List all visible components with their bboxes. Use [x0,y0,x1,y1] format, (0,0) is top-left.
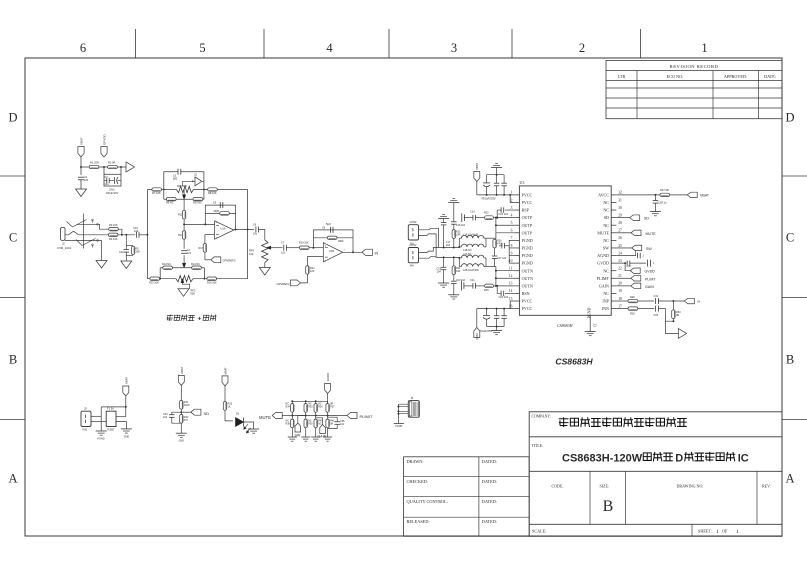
connector VBAT P5 [123,386,129,396]
svg-text:VBAT: VBAT [475,333,479,340]
svg-text:R29: R29 [630,313,635,316]
svg-text:R28: R28 [630,296,635,299]
svg-text:1: 1 [716,529,719,535]
wire to GVDD flag [625,263,630,271]
agnd arrow [678,329,686,339]
svg-text:C8: C8 [322,227,326,230]
svg-text:FUSE: FUSE [107,428,114,432]
svg-text:SHEET:: SHEET: [698,529,712,534]
svg-text:IC: IC [738,452,749,464]
svg-text:TITLE:: TITLE: [532,444,544,448]
svg-text:10K: 10K [310,270,315,273]
svg-text:R13 NC: R13 NC [162,263,171,266]
svg-text:5pF: 5pF [326,222,331,226]
svg-text:10R: 10R [456,234,461,237]
svg-text:U1B: U1B [329,249,334,253]
svg-text:D: D [8,111,17,125]
capacitor C29 [636,253,638,259]
flag SW [632,245,642,250]
resistor R22 [485,216,494,220]
svg-text:C7: C7 [281,242,285,245]
wire pins [398,403,408,405]
resistor R32 [180,415,183,424]
ground [311,436,320,438]
revision record table [606,61,782,119]
audio jack J2 3.5mm [61,227,65,240]
svg-text:RP1 50K: RP1 50K [177,185,187,188]
svg-text:GVDD: GVDD [326,373,330,381]
feedback network U1A [205,205,235,229]
snubber RC column top [448,202,459,204]
wire output [234,229,254,231]
capacitor C10 [135,232,137,238]
flag SD out [191,409,201,415]
wire RC to ground [125,235,127,246]
svg-text:C21: C21 [470,279,475,282]
svg-text:NC: NC [603,268,609,273]
svg-text:2: 2 [579,41,585,55]
feedback network U1B [313,230,353,252]
caption tone circuit + amplify [166,315,195,321]
wire to tone input bus [139,234,147,236]
ground [650,211,661,213]
capacitor CNC polarized [109,180,114,182]
speaker connector J3 [408,225,418,240]
capacitor C20 [453,275,455,281]
wire OUTN tie pins 11-13 [496,270,514,272]
signature table (drawn/checked) [404,457,530,537]
svg-text:PLIMT: PLIMT [597,276,610,281]
wire [80,157,82,175]
svg-text:1: 1 [653,262,655,265]
svg-text:104: 104 [84,178,89,182]
svg-text:R14 NC: R14 NC [191,263,200,266]
svg-text:R36: R36 [318,406,323,409]
svg-text:VBAT: VBAT [80,137,84,145]
capacitor C25 [501,315,507,317]
svg-text:SW: SW [646,247,652,251]
svg-text:C2: C2 [105,176,109,179]
svg-text:J4A: J4A [410,265,415,268]
svg-text:B: B [9,353,17,367]
svg-text:C20 104: C20 104 [456,279,466,282]
resistor R19 [300,246,310,249]
ground [178,289,189,297]
svg-text:R8 10K: R8 10K [208,191,217,195]
capacitor C6 [255,227,257,233]
svg-text:PGND: PGND [522,246,533,251]
speaker connector J4 [408,248,418,263]
svg-text:18: 18 [618,297,622,301]
flag IN [362,249,373,255]
svg-text:REVISION RECORD: REVISION RECORD [670,64,719,69]
svg-text:7: 7 [511,236,513,240]
svg-text:R7 10K: R7 10K [152,191,161,195]
connector VBAT P3 [474,172,480,182]
U3 left pins 1-16 [514,194,519,196]
wire speaker rail P [438,247,459,249]
svg-text:NC: NC [318,423,322,426]
svg-text:7: 7 [344,250,346,252]
wire top cap bank rails [487,174,505,176]
resistor R18 [220,212,230,215]
ground [76,189,87,197]
ground [323,436,332,438]
capacitor C16 [472,215,474,221]
svg-text:GPVDD: GPVDD [103,133,107,145]
svg-text:R27 0R: R27 0R [660,188,669,192]
resistor R10 (treble lower right) [193,198,203,201]
potentiometer RP2 bass [176,276,193,282]
capacitor C1 [78,176,84,178]
resistor R35 [305,401,307,403]
capacitor C21 [472,283,474,289]
svg-text:13: 13 [509,282,513,286]
potentiometer RP1 treble [176,186,193,192]
wire PLIMT pin 21 [616,277,630,279]
svg-text:VBAT: VBAT [700,194,710,198]
wire [282,415,292,417]
svg-text:PGND: PGND [522,238,533,243]
svg-text:IN: IN [375,251,379,255]
svg-text:21: 21 [618,274,622,278]
inductor L1 pair [461,235,484,238]
svg-text:23: 23 [618,259,622,263]
capacitor C35 [328,417,338,421]
svg-text:INP: INP [602,299,609,304]
connector GVDD P8 [325,384,331,394]
svg-text:DATED:: DATED: [482,519,497,524]
capacitor C13 [494,182,500,184]
svg-text:NC: NC [603,291,609,296]
svg-text:U3: U3 [520,180,525,185]
svg-text:28: 28 [618,221,622,225]
resistor R27 [660,193,670,196]
wire mid column [183,199,185,210]
svg-text:16: 16 [509,304,513,308]
wire PVCC pins 1-2 bracket [510,195,514,203]
ground [259,268,270,276]
svg-text:R39: R39 [308,423,313,426]
resistor R25 [485,284,494,288]
treble wiper wires [182,180,195,182]
svg-text:DRAWN:: DRAWN: [407,459,424,464]
wire jack sleeve ground [101,240,103,260]
svg-text:CODE:: CODE: [552,483,564,488]
treble network box [164,172,178,200]
svg-text:DATED:: DATED: [482,459,497,464]
svg-text:GVDD: GVDD [597,261,609,266]
svg-text:17: 17 [618,304,622,308]
wire inverting input [184,223,214,225]
svg-text:DATED:: DATED: [482,499,497,504]
wire bass row [147,278,176,280]
resistor R31 [180,401,183,410]
wire [287,247,300,249]
svg-text:104: 104 [446,244,451,247]
flag GPVREF [211,257,221,263]
wire noninverting input [205,234,215,236]
capacitor C27 [494,248,496,256]
resistor R20 [327,236,337,239]
wire PVCC pins 15-16 bracket [510,301,514,309]
snubber RC column bottom [453,257,455,265]
resistor R11 [182,210,185,219]
resistor R38 [291,419,294,428]
wire to agnd arrow [665,321,678,333]
svg-text:R35: R35 [308,406,313,409]
svg-text:J6: J6 [411,396,414,400]
flag SD [630,215,640,220]
wire to volume pot [259,230,265,240]
wire [204,252,206,260]
connector VBAT P1 [78,147,84,158]
svg-text:D: D [785,111,794,125]
capacitor C12 bulk [483,182,490,184]
svg-text:GVDD: GVDD [645,270,656,274]
svg-text:ECO NO:: ECO NO: [667,74,684,79]
svg-text:REV:: REV: [762,483,771,488]
resistor R7 [152,188,162,191]
svg-text:MUTE: MUTE [646,232,657,236]
wire [180,385,182,400]
svg-text:CHECKED:: CHECKED: [407,479,429,484]
svg-text:SD: SD [604,215,609,220]
svg-text:QUALITY CONTROL:: QUALITY CONTROL: [407,499,449,504]
resistor R24 [452,266,455,275]
capacitor C5 [219,202,221,208]
svg-text:4: 4 [511,213,513,217]
svg-text:R3 10K: R3 10K [109,223,118,227]
svg-text:1: 1 [701,41,707,55]
svg-text:B: B [786,353,794,367]
svg-text:50K: 50K [191,293,196,296]
svg-text:GPVREF2: GPVREF2 [223,259,237,263]
wire AGND pin 24 [616,255,636,257]
svg-text:9: 9 [511,251,513,255]
capacitor C8 [329,227,331,233]
svg-text:SW: SW [603,246,609,251]
resistor R3 [109,228,119,231]
capacitor C31 [647,260,649,267]
svg-text:R17: R17 [199,247,204,250]
connector VBAT P6 [178,375,184,385]
svg-text:PVCC: PVCC [522,200,533,205]
svg-text:100uF/10V: 100uF/10V [106,191,119,195]
op-amp IC U3 CS8683H body [519,186,611,315]
flag GPVREF right [291,280,301,286]
svg-text:GPVREF2: GPVREF2 [277,282,291,286]
svg-text:8: 8 [511,244,513,248]
wire [225,410,233,421]
svg-text:LTR: LTR [618,74,626,79]
svg-text:DATED:: DATED: [482,479,497,484]
svg-text:15: 15 [509,297,513,301]
svg-text:AVCC: AVCC [598,193,609,198]
wire [91,421,106,423]
wire [301,274,308,283]
wire loop caps [104,167,121,186]
svg-text:CS8683H: CS8683H [557,323,574,328]
svg-text:PGND: PGND [522,261,533,266]
connector J5 VIN [81,411,91,426]
svg-text:OUTP: OUTP [522,215,533,220]
svg-text:GAIN: GAIN [599,283,609,288]
svg-text:BSN: BSN [522,291,530,296]
svg-text:10K: 10K [135,249,140,253]
svg-text:2: 2 [511,198,513,202]
svg-text:MUTE: MUTE [259,415,271,420]
resistor R15 [150,277,160,280]
svg-text:MUTE: MUTE [597,230,609,235]
svg-text:10u: 10u [281,252,286,255]
svg-text:C11: C11 [119,250,124,254]
svg-text:B: B [603,498,614,515]
svg-text:27: 27 [618,229,622,233]
capacitor C2 [104,180,107,182]
svg-text:1K: 1K [228,406,231,409]
svg-text:3: 3 [511,206,513,210]
svg-text:C28 1u: C28 1u [658,201,667,205]
svg-text:A: A [785,472,794,486]
ground [248,428,259,430]
svg-text:300K: 300K [214,210,220,213]
wire [118,229,122,235]
wire speaker rail N [436,256,459,258]
treble mini opamp [195,177,202,186]
svg-text:SD: SD [204,411,210,416]
wire OUTP tie pins 4-6 [496,217,514,219]
capacitor C34 [172,412,182,414]
sheet border frame [25,58,782,536]
svg-text:NC: NC [603,200,609,205]
wire BSN RC row [465,285,473,287]
wire [117,166,126,168]
svg-text:47K: 47K [184,419,189,422]
svg-text:GND: GND [179,440,185,443]
ground [121,428,132,430]
svg-text:OUTN: OUTN [522,283,533,288]
ground bottom bank [496,327,498,331]
svg-text:COMPANY:: COMPANY: [532,415,551,419]
LED D1 [236,418,244,427]
capacitor C7 [283,245,285,251]
wire [99,166,108,168]
capacitor C3 treble [177,169,179,175]
svg-text:1: 1 [511,191,513,195]
svg-text:0R: 0R [676,314,679,317]
svg-text:SCALE:: SCALE: [532,529,546,534]
svg-text:R34: R34 [286,406,291,409]
svg-text:L1A 10uH/MS: L1A 10uH/MS [463,234,479,237]
title block [529,412,782,537]
flag VBAT right [687,192,697,197]
svg-text:360K: 360K [338,240,344,243]
svg-text:R15 10K: R15 10K [149,281,159,284]
svg-text:473: 473 [187,252,192,255]
svg-text:J5: J5 [84,407,87,411]
svg-text:104: 104 [437,271,442,274]
flag SW up [295,423,301,432]
svg-text:VBAT: VBAT [224,367,228,374]
svg-text:DRAWING NO:: DRAWING NO: [677,483,704,488]
svg-text:R2 0R: R2 0R [108,161,115,165]
svg-text:10u: 10u [253,233,258,236]
svg-text:CS8683H: CS8683H [555,357,593,367]
U3 right pins 17-32 [611,308,616,310]
wire speaker J3 to rails [419,228,439,247]
svg-text:U2: U2 [194,175,198,177]
svg-text:PGND: PGND [98,438,105,441]
svg-text:NC: NC [603,208,609,213]
svg-text:20: 20 [618,282,622,286]
ground [288,436,297,438]
resistor R16 [207,277,217,280]
svg-text:104: 104 [163,416,168,419]
svg-text:VBAT: VBAT [124,377,128,384]
zone ticks left [0,175,25,177]
svg-text:D1: D1 [236,412,240,416]
svg-text:OUTP: OUTP [522,223,533,228]
resistor R13 [163,266,173,269]
svg-text:26: 26 [618,236,622,240]
svg-text:6: 6 [80,41,86,55]
svg-text:D: D [675,452,683,464]
wire INP pin 18 [616,300,628,302]
snubber cap column C19 [441,266,447,268]
svg-text:OF: OF [722,529,728,534]
zone ticks top [135,29,137,58]
fuse F1 module [106,411,116,426]
svg-text:14: 14 [509,289,513,293]
svg-text:6: 6 [511,229,513,233]
resistor R5 [131,246,134,254]
flag PLIMT [631,276,641,281]
svg-text:R16 10K: R16 10K [207,281,217,284]
svg-text:GAIN: GAIN [645,285,654,289]
resistor R33 [223,402,226,411]
capacitor C24 [494,315,500,317]
capacitor C18 [451,221,457,223]
svg-text:C22 104: C22 104 [499,296,509,299]
svg-text:10R: 10R [456,270,461,273]
svg-text:1: 1 [736,529,739,535]
wire bottoms to ground [291,428,293,437]
wire top rail [327,394,329,404]
capacitor C26 across PGND [501,243,503,249]
capacitor C22 bootstrap BSN [505,292,514,294]
svg-text:VBAT: VBAT [180,367,184,374]
wire bottom cap bank rails [477,308,510,310]
wire output [343,251,362,253]
svg-text:C: C [786,231,794,245]
flag MUTE [631,230,641,235]
svg-text:C6: C6 [253,224,257,227]
resistor R1 [89,165,99,168]
svg-text:PVCC: PVCC [522,306,533,311]
wire [224,386,226,402]
resistor R17 [203,244,206,253]
resistor R40 [314,419,317,428]
wire mid rail [291,412,293,419]
ground [448,294,459,296]
svg-text:OUTP: OUTP [522,230,533,235]
svg-text:DATE:: DATE: [764,74,776,79]
svg-text:IN: IN [698,300,701,304]
capacitor C23 bulk [483,314,490,316]
svg-text:C16: C16 [470,211,475,214]
capacitor C15 bootstrap BSP [505,209,514,211]
